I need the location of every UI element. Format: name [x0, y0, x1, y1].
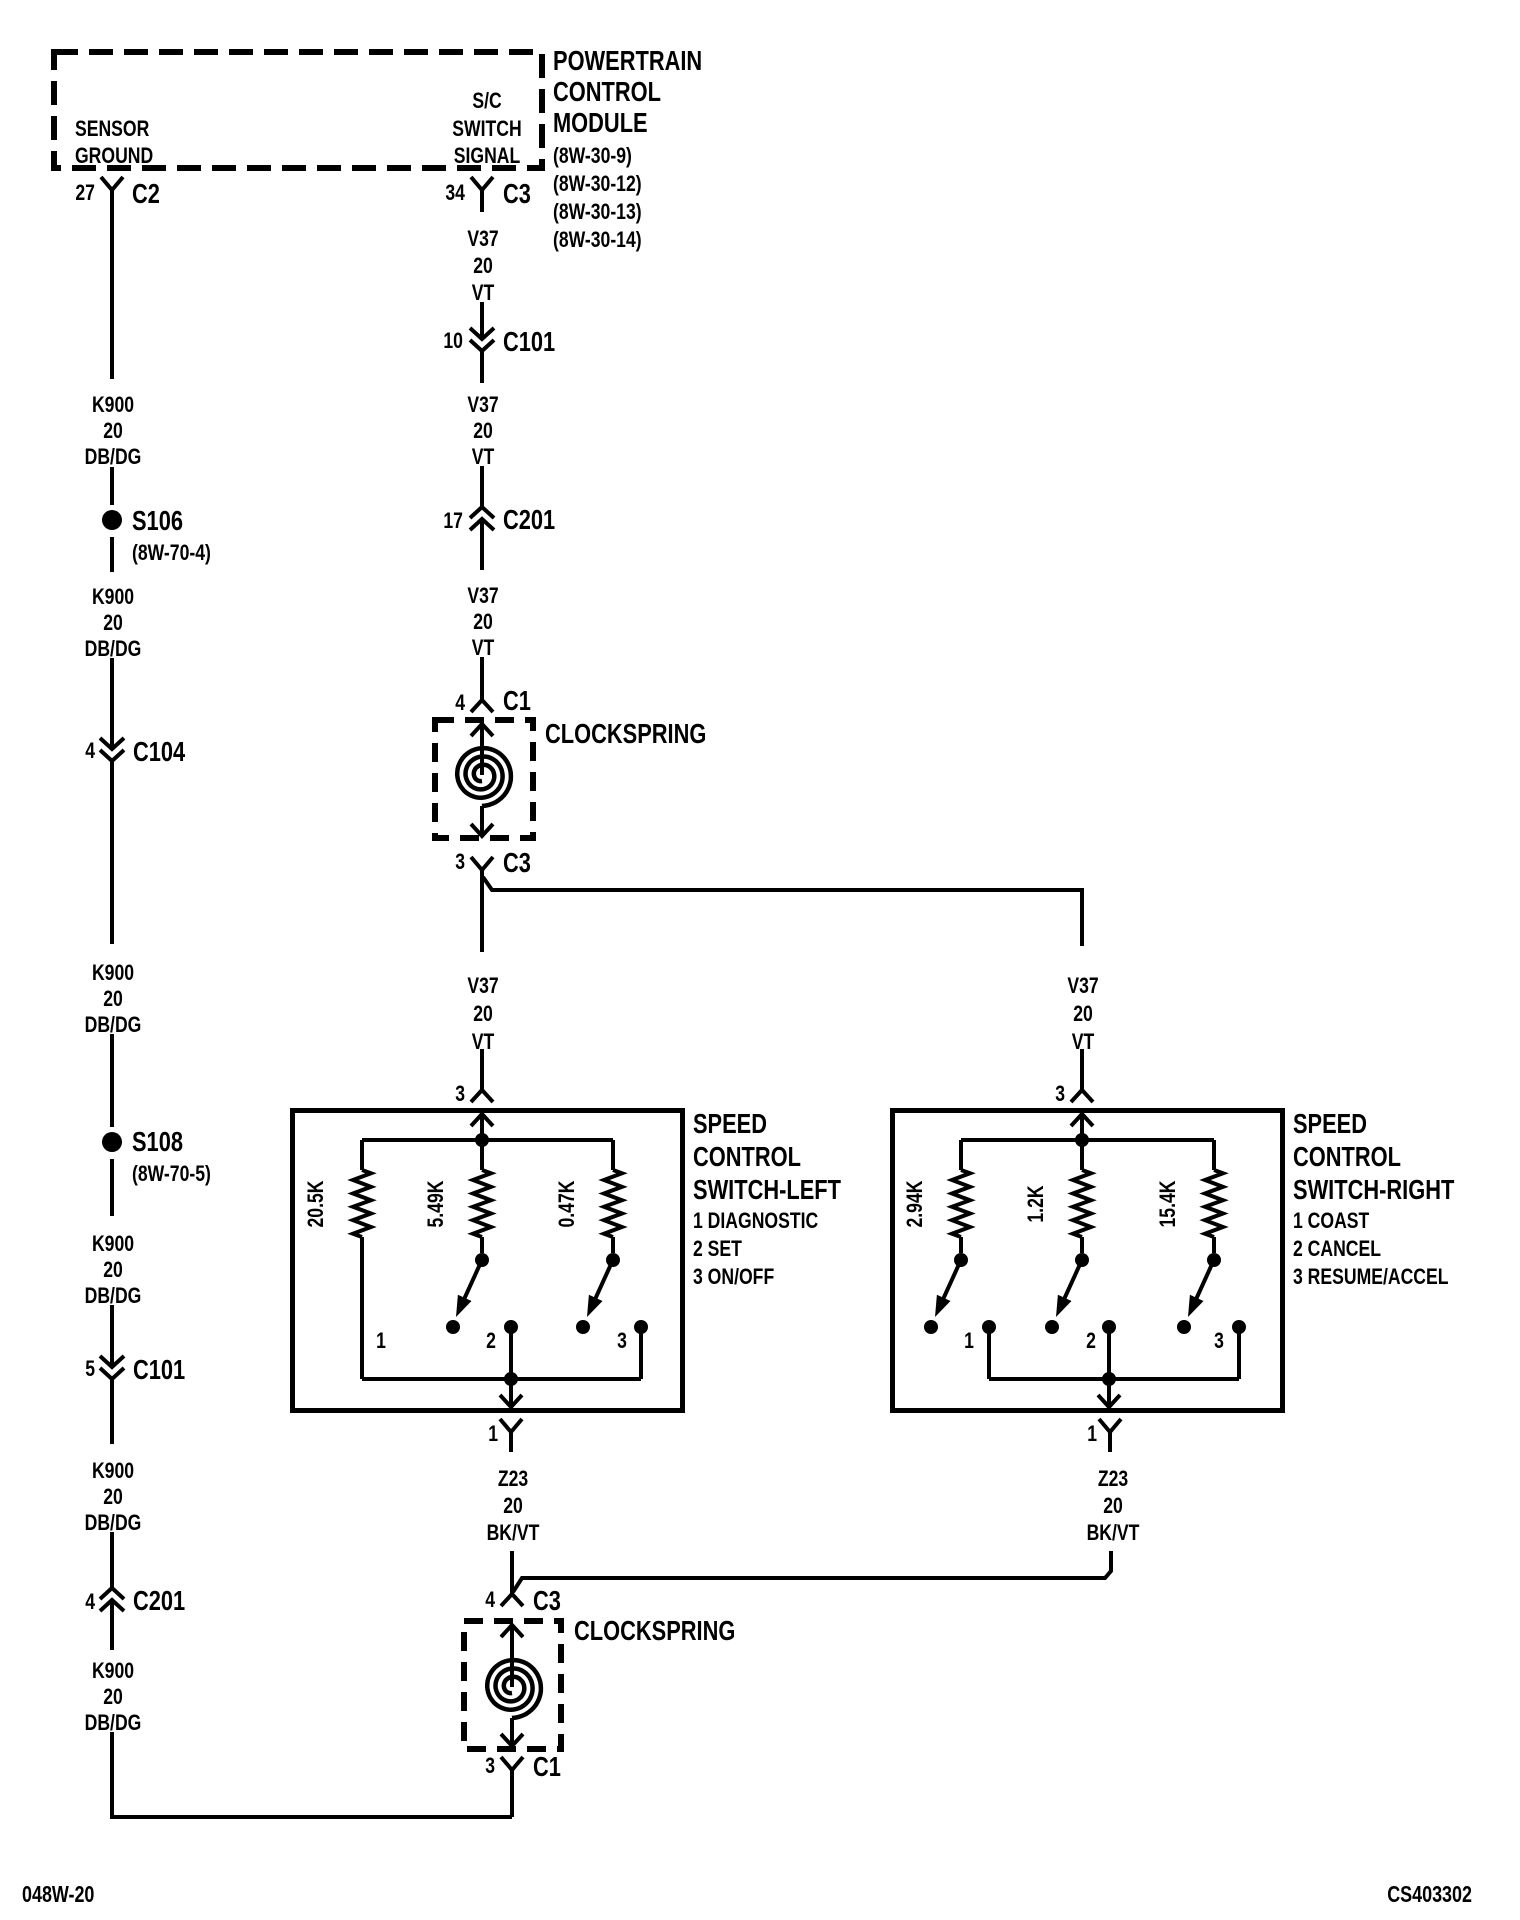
right switch COAST switch arm arrow: [935, 1262, 960, 1317]
clockspring lower dashed box: [464, 1621, 561, 1749]
PCM dashed box outline: [54, 52, 542, 168]
svg-text:S108: S108: [132, 1126, 183, 1157]
svg-text:CS403302: CS403302: [1387, 1881, 1472, 1907]
svg-text:Z23: Z23: [498, 1466, 528, 1491]
right switch resistor 15.4K: [1155, 1140, 1223, 1253]
right switch exit arrow: [1098, 1379, 1120, 1407]
wire label K900 20 DB/DG block F: [85, 1658, 142, 1735]
svg-text:3: 3: [455, 849, 465, 874]
right switch bottom bus junction node: [1102, 1372, 1116, 1386]
right switch RESUME contact node: [1177, 1320, 1191, 1334]
wire Z23 left segment to C3: [510, 1551, 514, 1594]
left switch terminal numbers: [376, 1328, 627, 1353]
right switch CANCEL contact pole node: [1075, 1253, 1089, 1267]
svg-text:DB/DG: DB/DG: [85, 444, 142, 469]
left switch resistor 0.47K: [554, 1140, 622, 1253]
svg-text:27: 27: [75, 180, 95, 205]
svg-text:20: 20: [103, 986, 123, 1011]
svg-text:048W-20: 048W-20: [22, 1881, 94, 1907]
svg-text:C104: C104: [133, 736, 186, 767]
left switch bottom bus junction node: [504, 1372, 518, 1386]
left switch terminal 3 node: [634, 1320, 648, 1379]
svg-text:4: 4: [455, 690, 465, 715]
wire K900 segment to C104: [110, 658, 114, 749]
svg-text:DB/DG: DB/DG: [85, 1510, 142, 1535]
svg-text:5: 5: [85, 1356, 95, 1381]
wire label K900 20 DB/DG block C: [85, 960, 142, 1037]
svg-text:MODULE: MODULE: [553, 107, 648, 138]
clockspring upper dashed box: [435, 720, 533, 838]
PCM title POWERTRAIN CONTROL MODULE: [553, 45, 702, 252]
svg-text:POWERTRAIN: POWERTRAIN: [553, 45, 702, 76]
svg-text:(8W-30-14): (8W-30-14): [553, 227, 642, 252]
right switch CANCEL switch arm arrow: [1056, 1262, 1081, 1317]
svg-text:K900: K900: [92, 960, 134, 985]
svg-text:SWITCH: SWITCH: [452, 116, 521, 141]
svg-text:20: 20: [103, 418, 123, 443]
wire K900 segment to S108: [110, 1034, 114, 1127]
svg-text:1: 1: [1087, 1421, 1097, 1446]
svg-text:Z23: Z23: [1098, 1466, 1128, 1491]
svg-text:20: 20: [503, 1493, 523, 1518]
svg-text:S106: S106: [132, 505, 183, 536]
connector C3 pin 4 clockspring entry: [485, 1585, 561, 1616]
svg-text:(8W-70-4): (8W-70-4): [132, 540, 211, 565]
left switch SET contact node: [446, 1320, 460, 1334]
right switch CANCEL contact node: [1045, 1320, 1059, 1334]
svg-text:3: 3: [455, 1081, 465, 1106]
connector C3 pin 34: [445, 177, 531, 209]
svg-text:V37: V37: [467, 583, 498, 608]
svg-text:K900: K900: [92, 584, 134, 609]
svg-text:34: 34: [445, 180, 465, 205]
wire label V37 20 VT block I: [467, 583, 498, 660]
svg-text:DB/DG: DB/DG: [85, 1710, 142, 1735]
wire K900 from S108 to C101 upper segment: [110, 1159, 114, 1216]
svg-text:VT: VT: [472, 444, 495, 469]
svg-text:20.5K: 20.5K: [303, 1180, 328, 1227]
connector C3 pin 3 clockspring exit: [455, 847, 531, 878]
right switch terminal numbers: [964, 1328, 1224, 1353]
connector pin 3 right switch entry: [1055, 1081, 1093, 1106]
svg-text:S/C: S/C: [472, 88, 501, 113]
splice S106: [102, 505, 211, 565]
left switch resistor 5.49K: [423, 1140, 491, 1253]
svg-text:20: 20: [1103, 1493, 1123, 1518]
left switch ON/OFF switch arm arrow: [587, 1262, 612, 1317]
svg-text:C201: C201: [503, 504, 555, 535]
svg-text:2.94K: 2.94K: [902, 1180, 927, 1227]
svg-text:SWITCH-LEFT: SWITCH-LEFT: [693, 1174, 841, 1205]
left switch exit arrow: [500, 1379, 522, 1407]
wire label V37 20 VT block G: [467, 226, 498, 305]
PCM pin label SENSOR GROUND: [75, 116, 153, 168]
clockspring upper exit arrow: [471, 806, 493, 836]
wire V37 segment to left switch: [480, 1049, 484, 1090]
svg-text:GROUND: GROUND: [75, 143, 153, 168]
svg-text:4: 4: [485, 1587, 495, 1612]
svg-text:BK/VT: BK/VT: [487, 1520, 540, 1545]
wire K900 from C201 lower segment: [110, 1600, 114, 1650]
svg-text:V37: V37: [467, 392, 498, 417]
svg-text:K900: K900: [92, 392, 134, 417]
connector C101 pin 10: [443, 326, 555, 357]
svg-text:1: 1: [488, 1421, 498, 1446]
PCM pin label S/C SWITCH SIGNAL: [452, 88, 521, 168]
wire label K900 20 DB/DG block D: [85, 1231, 142, 1308]
right switch entry arrow: [1071, 1114, 1093, 1140]
svg-text:K900: K900: [92, 1231, 134, 1256]
right switch top bus wire: [961, 1138, 1214, 1142]
svg-text:VT: VT: [472, 635, 495, 660]
svg-text:2: 2: [486, 1328, 496, 1353]
svg-text:4: 4: [85, 738, 95, 763]
right switch terminal 3 node: [1232, 1320, 1246, 1379]
connector C1 pin 3 clockspring exit: [485, 1751, 561, 1790]
svg-text:CLOCKSPRING: CLOCKSPRING: [545, 718, 706, 749]
left switch ON/OFF contact node: [576, 1320, 590, 1334]
right switch bottom bus wire: [989, 1377, 1239, 1381]
right switch resistor 1.2K: [1023, 1140, 1091, 1253]
wire label Z23 20 BK/VT right: [1087, 1466, 1140, 1545]
svg-text:1 DIAGNOSTIC: 1 DIAGNOSTIC: [693, 1208, 818, 1233]
svg-text:2 SET: 2 SET: [693, 1236, 742, 1261]
svg-text:CONTROL: CONTROL: [693, 1141, 801, 1172]
right switch terminal 1 node: [982, 1320, 996, 1379]
svg-text:(8W-70-5): (8W-70-5): [132, 1161, 211, 1186]
left switch title SPEED CONTROL SWITCH-LEFT: [693, 1108, 841, 1289]
svg-text:(8W-30-12): (8W-30-12): [553, 171, 642, 196]
left switch top bus junction node: [475, 1133, 489, 1147]
svg-text:1: 1: [964, 1328, 974, 1353]
svg-text:1: 1: [376, 1328, 386, 1353]
svg-text:3: 3: [617, 1328, 627, 1353]
svg-text:3: 3: [1055, 1081, 1065, 1106]
svg-text:SPEED: SPEED: [693, 1108, 767, 1139]
wire label Z23 20 BK/VT left: [487, 1466, 540, 1545]
svg-text:(8W-30-9): (8W-30-9): [553, 143, 632, 168]
wire V37 segment to clockspring C1: [480, 657, 484, 700]
svg-text:20: 20: [103, 1257, 123, 1282]
wire label K900 20 DB/DG block A: [85, 392, 142, 469]
svg-text:V37: V37: [1067, 973, 1098, 998]
svg-text:C3: C3: [503, 178, 531, 209]
left switch SET switch arm arrow: [456, 1262, 481, 1317]
svg-text:V37: V37: [467, 973, 498, 998]
svg-text:20: 20: [473, 609, 493, 634]
wire K900 lower segment to S106: [110, 467, 114, 505]
wire label K900 20 DB/DG block E: [85, 1458, 142, 1535]
right switch RESUME contact pole node: [1207, 1253, 1221, 1267]
wire V37 from C201: [480, 519, 484, 570]
wire K900 segment to C201: [110, 1532, 114, 1588]
svg-text:DB/DG: DB/DG: [85, 636, 142, 661]
svg-text:17: 17: [443, 508, 463, 533]
wire label K900 20 DB/DG block B: [85, 584, 142, 661]
svg-text:V37: V37: [467, 226, 498, 251]
svg-text:3 ON/OFF: 3 ON/OFF: [693, 1264, 774, 1289]
svg-text:SIGNAL: SIGNAL: [454, 143, 521, 168]
wire V37 from PCM C3: [480, 190, 484, 212]
wire K900 to bottom corner and across to clockspring C1: [112, 1732, 512, 1817]
svg-text:C3: C3: [533, 1585, 561, 1616]
svg-text:20: 20: [473, 418, 493, 443]
svg-text:20: 20: [1073, 1001, 1093, 1026]
svg-text:1 COAST: 1 COAST: [1293, 1208, 1370, 1233]
wire K900 from C104 to S108 upper segment: [110, 761, 114, 944]
svg-text:C101: C101: [133, 1354, 185, 1385]
svg-text:5.49K: 5.49K: [423, 1180, 448, 1227]
svg-text:SPEED: SPEED: [1293, 1108, 1367, 1139]
wire V37 segment to right switch: [1080, 1049, 1084, 1090]
left switch bottom bus wire: [362, 1377, 641, 1381]
svg-text:CONTROL: CONTROL: [1293, 1141, 1401, 1172]
left switch terminal 2 node: [504, 1320, 518, 1379]
svg-text:3: 3: [1214, 1328, 1224, 1353]
svg-text:0.47K: 0.47K: [554, 1180, 579, 1227]
svg-text:C201: C201: [133, 1585, 185, 1616]
left switch entry arrow: [471, 1114, 493, 1140]
connector C101 pin 5: [85, 1354, 185, 1385]
wire Z23 right segment across to clockspring C3: [513, 1551, 1111, 1592]
right switch title SPEED CONTROL SWITCH-RIGHT: [1293, 1108, 1454, 1289]
left switch resistor 20.5K: [303, 1140, 371, 1379]
svg-text:10: 10: [443, 328, 463, 353]
svg-text:CLOCKSPRING: CLOCKSPRING: [574, 1615, 735, 1646]
svg-text:VT: VT: [472, 280, 495, 305]
connector C1 pin 4 clockspring entry: [455, 685, 531, 716]
svg-text:4: 4: [85, 1589, 95, 1614]
svg-text:2 CANCEL: 2 CANCEL: [1293, 1236, 1381, 1261]
svg-text:20: 20: [103, 1484, 123, 1509]
left switch top bus wire: [362, 1138, 613, 1142]
clockspring upper entry arrow: [471, 724, 493, 775]
connector pin 3 left switch entry: [455, 1081, 493, 1106]
svg-text:20: 20: [103, 1684, 123, 1709]
right switch top bus junction node: [1075, 1133, 1089, 1147]
svg-text:SWITCH-RIGHT: SWITCH-RIGHT: [1293, 1174, 1454, 1205]
connector C201 pin 17: [443, 504, 555, 535]
wire V37 below clockspring with branch to right: [482, 870, 1082, 952]
left switch SET contact pole node: [475, 1253, 489, 1267]
right switch terminal 2 node: [1102, 1320, 1116, 1379]
clockspring upper coil spiral: [457, 748, 511, 806]
svg-text:20: 20: [103, 610, 123, 635]
svg-text:3: 3: [485, 1753, 495, 1778]
svg-text:BK/VT: BK/VT: [1087, 1520, 1140, 1545]
svg-text:C3: C3: [503, 847, 531, 878]
wire K900 from C2 to S106 upper segment: [110, 190, 114, 379]
svg-text:(8W-30-13): (8W-30-13): [553, 199, 642, 224]
svg-text:C1: C1: [533, 1751, 561, 1782]
wire K900 from S106 to C104 upper segment: [110, 537, 114, 572]
right switch box outline: [893, 1111, 1283, 1411]
svg-text:C1: C1: [503, 685, 531, 716]
wire K900 from C101 to C201 upper segment: [110, 1379, 114, 1444]
svg-text:2: 2: [1086, 1328, 1096, 1353]
connector pin 1 left switch exit: [488, 1419, 522, 1452]
svg-text:DB/DG: DB/DG: [85, 1012, 142, 1037]
svg-text:DB/DG: DB/DG: [85, 1283, 142, 1308]
connector pin 1 right switch exit: [1087, 1419, 1121, 1452]
svg-text:1.2K: 1.2K: [1023, 1185, 1048, 1222]
right switch COAST contact node: [924, 1320, 938, 1334]
right switch resistor 2.94K: [902, 1140, 970, 1253]
svg-text:20: 20: [473, 1001, 493, 1026]
svg-text:15.4K: 15.4K: [1155, 1180, 1180, 1227]
wire label V37 20 VT block H: [467, 392, 498, 469]
wire V37 segment to C101: [480, 302, 484, 339]
connector C201 pin 4: [85, 1585, 185, 1616]
svg-text:20: 20: [473, 253, 493, 278]
splice S108: [102, 1126, 211, 1186]
wire V37 from C101: [480, 351, 484, 383]
svg-text:C2: C2: [132, 178, 160, 209]
wire label V37 20 VT block J left branch: [467, 973, 498, 1054]
svg-text:K900: K900: [92, 1658, 134, 1683]
left switch box outline: [293, 1111, 683, 1411]
svg-text:SENSOR: SENSOR: [75, 116, 149, 141]
svg-text:K900: K900: [92, 1458, 134, 1483]
clockspring lower coil spiral: [487, 1660, 541, 1718]
connector C104 pin 4: [85, 736, 185, 767]
left switch ON/OFF contact pole node: [606, 1253, 620, 1267]
clockspring lower exit arrow: [501, 1718, 523, 1746]
wire V37 segment to C201: [480, 466, 484, 507]
svg-text:C101: C101: [503, 326, 555, 357]
wire K900 segment to C101: [110, 1305, 114, 1367]
connector C2 pin 27: [75, 177, 159, 209]
svg-text:3 RESUME/ACCEL: 3 RESUME/ACCEL: [1293, 1264, 1449, 1289]
wire label V37 20 VT block K right branch: [1067, 973, 1098, 1054]
right switch COAST contact pole node: [954, 1253, 968, 1267]
clockspring lower entry arrow: [501, 1625, 523, 1687]
right switch RESUME switch arm arrow: [1188, 1262, 1213, 1317]
svg-text:CONTROL: CONTROL: [553, 76, 661, 107]
